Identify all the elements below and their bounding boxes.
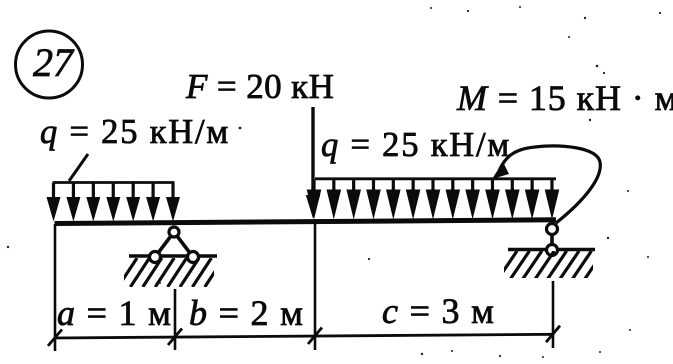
- svg-text:a = 1 м: a = 1 м: [57, 293, 172, 333]
- svg-text:27: 27: [33, 40, 75, 85]
- svg-text:M = 15 кН · м: M = 15 кН · м: [456, 78, 673, 118]
- svg-text:q = 25 кН/м: q = 25 кН/м: [321, 126, 511, 164]
- svg-text:c = 3 м: c = 3 м: [382, 291, 495, 331]
- svg-text:b = 2 м: b = 2 м: [189, 293, 304, 333]
- svg-text:q = 25 кН/м: q = 25 кН/м: [40, 113, 230, 151]
- svg-text:F = 20 кН: F = 20 кН: [185, 67, 334, 106]
